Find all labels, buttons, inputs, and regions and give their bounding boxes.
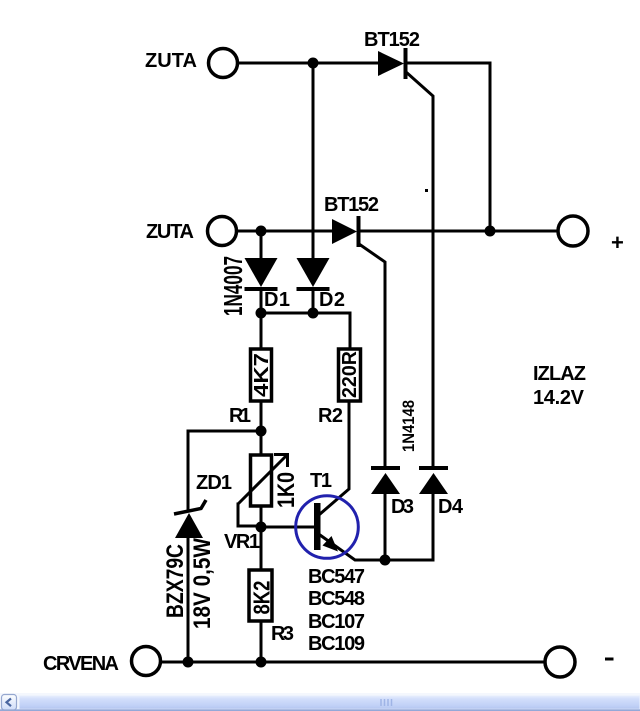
diode D2 triangle <box>297 258 330 287</box>
svg-text:BC547: BC547 <box>308 566 365 588</box>
wire D4 cathode up to BT152 gate <box>406 72 433 466</box>
scrollbar left button <box>2 695 17 711</box>
svg-text:220R: 220R <box>339 350 361 398</box>
wire D1 bottom: D1 cathode to node B <box>260 291 263 313</box>
wire D3 cathode up to BT152b gate <box>359 244 385 466</box>
wire D1 top: row2 junction down to D1 anode <box>260 231 263 259</box>
scrollbar track <box>0 693 640 711</box>
wire node B horizontal to R2 corner <box>261 313 350 349</box>
svg-text:CRVENA: CRVENA <box>43 653 119 675</box>
diode D3 triangle <box>371 473 400 494</box>
zener ZD1 cathode bar <box>174 500 206 514</box>
junction bottom rail ZD1 <box>183 657 194 668</box>
wire row1 right: BT152 cathode to right corner <box>407 62 490 65</box>
svg-text:4K7: 4K7 <box>251 353 273 397</box>
thyristor BT152 top cathode bar <box>404 48 408 79</box>
terminal ZUTA1 <box>209 49 238 78</box>
wire bottom rail CRVENA to - terminal <box>161 661 545 664</box>
thyristor BT152b cathode bar <box>357 216 361 247</box>
svg-text:ZUTA: ZUTA <box>145 50 197 72</box>
junction node B at D1 cathode <box>256 308 267 319</box>
svg-text:BT152: BT152 <box>364 29 420 51</box>
transistor T1 emitter arrow <box>323 536 339 552</box>
wire R1 bottom lead to node C <box>260 401 263 431</box>
svg-text:BC548: BC548 <box>308 588 365 610</box>
wire R3 bottom lead to bottom rail <box>260 621 263 662</box>
svg-text:D2: D2 <box>319 289 345 311</box>
terminal minus output <box>545 647 575 677</box>
svg-text:R3: R3 <box>271 623 294 645</box>
diode D4 triangle <box>419 473 448 494</box>
wire row2 left: ZUTA2 terminal to BT152b anode <box>237 230 332 233</box>
diode D1 cathode bar <box>245 287 278 291</box>
wire R1 top lead <box>260 313 263 349</box>
svg-text:1N4007: 1N4007 <box>218 256 248 316</box>
svg-text:14.2V: 14.2V <box>533 387 585 409</box>
scrollbar left arrow <box>7 699 12 707</box>
thyristor BT152 top triangle <box>378 51 404 76</box>
svg-text:BT152: BT152 <box>324 194 379 216</box>
svg-text:ZD1: ZD1 <box>196 472 232 494</box>
svg-text:BC109: BC109 <box>308 633 365 655</box>
wire node C left to ZD1 branch <box>188 431 261 509</box>
junction emitter D3 node <box>380 555 391 566</box>
svg-text:8K2: 8K2 <box>249 581 275 615</box>
wire node D to T1 base <box>261 526 314 529</box>
svg-text:VR1: VR1 <box>224 531 260 553</box>
svg-text:+: + <box>611 230 624 255</box>
svg-text:R2: R2 <box>318 405 343 427</box>
zener ZD1 triangle <box>175 513 203 538</box>
diode D4 cathode bar <box>419 466 448 470</box>
junction row2 right <box>485 226 496 237</box>
svg-text:1N4148: 1N4148 <box>399 400 418 452</box>
junction node A row1 <box>308 58 319 69</box>
potentiometer VR1 arrow head <box>274 455 288 468</box>
wire VR1 wiper return <box>238 504 259 526</box>
junction node D below VR1 <box>256 522 267 533</box>
junction node B at D2 cathode <box>308 308 319 319</box>
svg-text:BC107: BC107 <box>308 611 365 633</box>
wire T1 collector up to R2 <box>320 401 349 514</box>
svg-text:BZX79C: BZX79C <box>162 544 189 618</box>
wire node D down to R3 top <box>260 527 263 570</box>
resistor R2 body <box>339 349 361 401</box>
svg-text:1K0: 1K0 <box>273 472 300 508</box>
potentiometer VR1 body <box>251 455 272 506</box>
junction node C below R1 <box>256 426 267 437</box>
wire row2 right: BT152b cathode to + terminal <box>361 230 557 233</box>
label minus sign <box>605 658 614 661</box>
scrollbar thumb <box>19 696 640 710</box>
wire VR1 top lead <box>260 431 263 455</box>
wire T1 emitter to D3 D4 anodes <box>320 535 433 560</box>
wire D2 bottom: D2 cathode to node B <box>312 291 315 313</box>
resistor R3 body <box>249 570 272 621</box>
svg-text:R1: R1 <box>229 405 251 427</box>
stray ink dot <box>425 189 428 192</box>
svg-text:D4: D4 <box>438 496 464 518</box>
transistor T1 base bar <box>314 503 321 550</box>
scrollbar thumb grip <box>381 699 392 706</box>
wire D3 anode lead <box>384 494 387 560</box>
thyristor BT152b triangle <box>332 219 357 244</box>
wire VR1 bottom lead to node D <box>260 506 263 527</box>
wire ZD1 anode down to bottom rail <box>187 538 190 662</box>
junction bottom rail R3 <box>256 657 267 668</box>
transistor T1 circle <box>296 496 359 559</box>
junction row2 at D1 <box>256 226 267 237</box>
diode D1 triangle <box>245 258 278 287</box>
terminal ZUTA2 <box>208 217 237 246</box>
svg-text:18V 0,5W: 18V 0,5W <box>189 538 216 629</box>
wire vertical from node A junction down to D2 anode <box>312 63 315 259</box>
potentiometer VR1 arrow shaft <box>238 455 287 504</box>
wire row1 left: ZUTA1 terminal to BT152 anode <box>239 62 378 65</box>
wire vertical from row1 corner down to row2 junction <box>489 63 492 231</box>
scrollbar bottom edge <box>0 709 640 711</box>
wire D4 anode lead <box>432 494 435 560</box>
svg-text:T1: T1 <box>310 470 332 492</box>
diode D2 cathode bar <box>297 287 330 291</box>
svg-text:D3: D3 <box>391 496 414 518</box>
svg-text:ZUTA: ZUTA <box>146 221 194 243</box>
terminal CRVENA <box>132 647 161 676</box>
resistor R1 body <box>251 349 272 401</box>
svg-text:D1: D1 <box>264 289 290 311</box>
terminal plus output <box>558 216 588 246</box>
diode D3 cathode bar <box>371 466 400 470</box>
svg-text:IZLAZ: IZLAZ <box>533 363 586 385</box>
